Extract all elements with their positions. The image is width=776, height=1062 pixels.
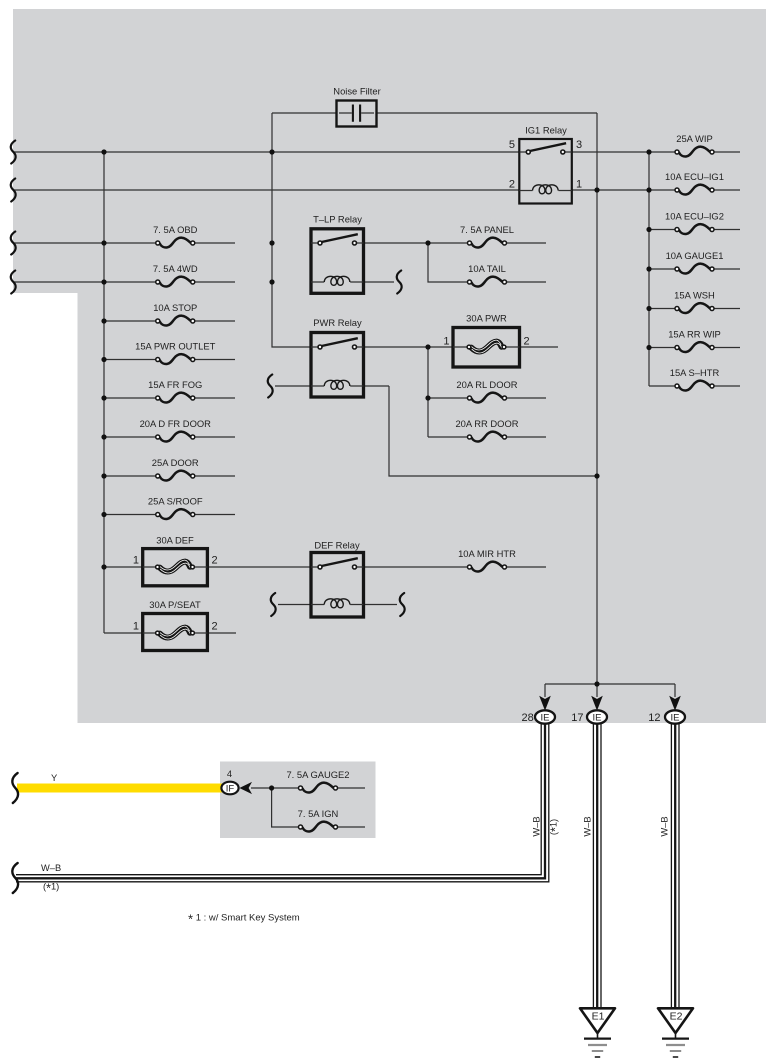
wire break PWR coil left [268,375,273,398]
arrow into IE pin 12 [669,696,681,711]
svg-text:2: 2 [212,621,218,633]
fuse 7. 5A PANEL [468,238,507,248]
svg-text:IF: IF [226,783,235,794]
relay T-LP Relay [311,229,364,293]
wire: PWR relay coil out [363,385,389,387]
junction PWR OUTLET row [101,357,106,362]
relay IG1 Relay [519,139,572,204]
svg-text:25A DOOR: 25A DOOR [152,457,199,468]
svg-text:4: 4 [227,768,232,779]
junction bus2/right bus [646,187,651,192]
wire: noise filter feed, left lead [272,112,337,114]
wire W-B from IE pin 28, down then left to break (triple line) [16,724,549,882]
junction IE header node [594,681,599,686]
fuse 15A WSH [675,303,714,313]
svg-text:W–B: W–B [531,816,542,836]
wire break DEF coil left [271,593,276,616]
svg-text:12: 12 [648,712,660,724]
junction DOOR row [101,473,106,478]
svg-text:10A MIR HTR: 10A MIR HTR [458,548,516,559]
arrow into IF pin 4 [239,782,252,794]
wire: DEF relay coil out to break [363,604,397,606]
connector IE pin 28 [535,710,555,723]
wire: 10A STOP fuse out [193,320,235,322]
relay PWR Relay [311,333,364,398]
svg-text:IE: IE [671,712,680,723]
junction D FR DOOR row [101,434,106,439]
junction bus1/noise filter bus [269,149,274,154]
fuse 25A S/ROOF [156,509,195,519]
svg-text:(*1): (*1) [43,882,59,896]
wire break yellow wire left [12,773,18,803]
wire: vertical bus x=272 down to PWR relay switch [272,113,311,347]
svg-text:17: 17 [571,712,583,724]
wire: break to PWR relay coil [275,385,311,387]
fuse 10A TAIL [468,277,507,287]
svg-text:DEF Relay: DEF Relay [314,540,360,551]
junction bus1/right bus [646,149,651,154]
fuse 7. 5A OBD [156,238,195,248]
fuse 10A ECU–IG1 [675,185,714,195]
wire: drop to IE pin 12 arrow [674,684,676,697]
wire: left vertical bus x=104 [103,152,105,633]
fuse 15A RR WIP [675,342,714,352]
arrow into IE pin 28 [539,696,551,711]
wire: bus to S-HTR fuse [649,385,677,387]
fusible link 30A PWR (box) [453,328,520,368]
svg-text:10A ECU–IG2: 10A ECU–IG2 [665,210,724,221]
fuse 7. 5A 4WD [156,277,195,287]
wire: 10A TAIL fuse out [505,281,547,283]
svg-text:E1: E1 [592,1011,605,1023]
junction 4WD row [101,279,106,284]
svg-text:10A ECU–IG1: 10A ECU–IG1 [665,171,724,182]
svg-text:3: 3 [576,139,582,151]
wire: 25A DOOR fuse out [193,475,235,477]
junction WSH row [646,306,651,311]
junction RR WIP row [646,345,651,350]
svg-text:5: 5 [509,139,515,151]
wire: node to 20A RL DOOR fuse [428,397,470,399]
fuse 10A ECU–IG2 [675,224,714,234]
svg-text:15A RR WIP: 15A RR WIP [668,328,721,339]
wire: top horizontal bus y=152 to IG1 relay pin5 [13,151,520,153]
junction DEF row [101,564,106,569]
svg-text:7. 5A IGN: 7. 5A IGN [298,808,339,819]
fusible link 30A DEF (box) [143,549,208,586]
wire: IF pin4 arrow to GAUGE2 node [251,787,301,789]
wire Y (yellow feed to IF connector) [17,784,222,793]
svg-text:20A RR DOOR: 20A RR DOOR [455,418,518,429]
fusible link 30A P/SEAT (box) [143,614,208,651]
wire: right vertical bus x=649 [648,152,650,386]
fuse 20A RL DOOR [468,393,507,403]
junction GAUGE2/IGN node [269,785,274,790]
svg-text:15A FR FOG: 15A FR FOG [148,379,202,390]
wire: bus to 30A DEF link box [104,566,143,568]
svg-text:30A DEF: 30A DEF [156,535,194,546]
junction GAUGE1 row [646,266,651,271]
wire: T-LP relay coil out to break [363,281,394,283]
wire: noise filter to right vertical [376,112,597,114]
instrument panel fuse block background (GAUGE2/IGN shaded panel) [220,762,376,839]
wire: bus corner to 30A P/SEAT link box [104,632,143,634]
svg-text:1: 1 [133,555,139,567]
wire: bus to 15A FR FOG fuse [104,397,158,399]
svg-text:W–B: W–B [41,863,61,873]
svg-text:1: 1 [133,621,139,633]
wire: 15A PWR OUTLET fuse out [193,359,235,361]
fuse 10A STOP [156,316,195,326]
wire: 20A D FR DOOR fuse out [193,436,235,438]
svg-text:* 1 : w/ Smart Key System: * 1 : w/ Smart Key System [188,912,300,927]
svg-text:20A RL DOOR: 20A RL DOOR [456,379,517,390]
junction PWR/doors node [425,344,430,349]
fuse 15A S–HTR [675,381,714,391]
wire break bus1 left [11,141,16,164]
wire: PWR relay switch out to 30A PWR link box [363,346,453,348]
fuse 10A GAUGE1 [675,264,714,274]
svg-text:28: 28 [522,712,534,724]
wire W-B from IE pin 17 down to ground E1 (triple line) [593,724,601,1009]
svg-text:25A WIP: 25A WIP [676,133,712,144]
wire: bus to WSH fuse [649,308,677,310]
fuse 25A DOOR [156,471,195,481]
junction bus1/left bus [101,149,106,154]
svg-text:PWR Relay: PWR Relay [313,317,362,328]
svg-text:10A TAIL: 10A TAIL [468,263,506,274]
svg-text:7. 5A GAUGE2: 7. 5A GAUGE2 [286,769,349,780]
wire: WSH fuse out [712,308,740,310]
fuse 7. 5A IGN [299,822,338,832]
junction T-LP coil row [269,279,274,284]
fuse 7. 5A GAUGE2 [299,783,338,793]
junction S/ROOF row [101,512,106,517]
wire: IG1 pin1 to 10A ECU-IG1 fuse [572,189,678,191]
wire: 25A WIP fuse out [712,151,740,153]
relay DEF Relay [311,553,364,618]
svg-text:Y: Y [51,772,58,783]
wire: bus to 7.5A 4WD fuse [13,281,158,283]
wire: DEF relay switch out to 10A MIR HTR fuse [363,566,470,568]
wire: T-LP relay switch out to 7.5A PANEL [363,242,470,244]
wire: RR WIP fuse out [712,347,740,349]
wire: bus to 7.5A OBD fuse [13,242,158,244]
wire: bus to 10A STOP fuse [104,320,158,322]
svg-text:20A D FR DOOR: 20A D FR DOOR [140,418,212,429]
wire: drop from 30A PWR node down to RR DOOR row [427,347,429,437]
wire: 10A ECU-IG1 fuse out [712,189,740,191]
fuse 15A FR FOG [156,393,195,403]
junction bus2/x597 vertical [594,187,599,192]
wire W-B from IE pin 12 down to ground E2 (triple line) [671,724,679,1009]
svg-text:30A P/SEAT: 30A P/SEAT [149,599,201,610]
wire: 25A S/ROOF fuse out [193,514,235,516]
junction FR FOG row [101,395,106,400]
wire: 7.5A PANEL fuse out [505,242,547,244]
junction PWR coil return node [594,473,599,478]
wire: 30A P/SEAT link out [207,632,236,634]
wire: 15A FR FOG fuse out [193,397,235,399]
svg-text:(*1): (*1) [548,819,563,835]
svg-text:T–LP Relay: T–LP Relay [313,214,362,225]
svg-text:IE: IE [541,712,550,723]
svg-text:15A WSH: 15A WSH [674,289,715,300]
wire: 20A RR DOOR fuse out [505,436,547,438]
junction STOP row [101,318,106,323]
svg-text:1: 1 [576,179,582,191]
ground E1 (triangle) [580,1008,615,1033]
junction RL DOOR node [425,395,430,400]
connector IF pin 4 [221,782,238,795]
noise filter (capacitor in box) [337,101,377,127]
wire: 10A MIR HTR fuse out [505,566,547,568]
wire: bus to 20A D FR DOOR fuse [104,436,158,438]
wire: bus to 15A PWR OUTLET fuse [104,359,158,361]
wire: 7.5A OBD fuse out [193,242,235,244]
wire: bus to ECU-IG2 fuse [649,229,677,231]
wire: 30A DEF link to DEF relay switch [207,566,311,568]
svg-text:2: 2 [524,336,530,348]
svg-text:2: 2 [212,555,218,567]
svg-text:W–B: W–B [582,816,593,836]
wire: GAUGE1 fuse out [712,268,740,270]
wire: drop to IE pin 17 arrow [596,684,598,697]
junction PANEL/TAIL node [425,240,430,245]
fuse 20A D FR DOOR [156,432,195,442]
svg-text:15A S–HTR: 15A S–HTR [670,367,720,378]
ground E2 (triangle) [658,1008,693,1033]
svg-text:7. 5A OBD: 7. 5A OBD [153,224,198,235]
wire: PWR coil return down and right to x=597 vertical [389,386,597,476]
arrow into IE pin 17 [591,696,603,711]
wire: IE connector header rail y=684 [545,683,675,685]
svg-text:W–B: W–B [659,816,670,836]
wire break W-B wire left [12,863,18,893]
wire: 7.5A GAUGE2 fuse out [336,787,366,789]
wire: 7.5A IGN fuse out [336,826,366,828]
connector IE pin 12 [665,710,685,723]
wire break DEF coil right [400,593,405,616]
wire break OBD row left [11,232,16,255]
svg-text:30A PWR: 30A PWR [466,313,507,324]
ground E1 (earth bars) [584,1033,611,1057]
junction OBD row [101,240,106,245]
wire break T-LP coil right [397,271,402,294]
svg-text:10A GAUGE1: 10A GAUGE1 [666,250,724,261]
svg-text:1: 1 [443,336,449,348]
fuse 15A PWR OUTLET [156,354,195,364]
svg-text:Noise Filter: Noise Filter [333,86,380,97]
wire break bus2 left [11,179,16,202]
wire: drop from PANEL node to 10A TAIL row [428,243,470,282]
svg-text:IE: IE [593,712,602,723]
junction T-LP switch row [269,240,274,245]
wire: bus to GAUGE1 fuse [649,268,677,270]
fuse 20A RR DOOR [468,432,507,442]
wire: second horizontal bus y=190 to IG1 relay pin2 [13,189,520,191]
wire: long vertical x=597 from noise filter to IE junction [596,113,598,684]
wire: bus to RR WIP fuse [649,347,677,349]
wire: IG1 pin3 to 25A WIP fuse [572,151,678,153]
wire: break to DEF relay coil [278,604,311,606]
fuse 25A WIP [675,147,714,157]
wire: 20A RL DOOR fuse out [505,397,547,399]
fusible link 30A P/SEAT (element) [156,626,195,639]
svg-text:15A PWR OUTLET: 15A PWR OUTLET [135,340,216,351]
svg-text:E2: E2 [670,1011,683,1023]
svg-text:7. 5A 4WD: 7. 5A 4WD [153,263,198,274]
wire break 4WD row left [11,271,16,294]
wire: S-HTR fuse out [712,385,740,387]
wire: bus to 25A DOOR fuse [104,475,158,477]
wire: corner to 20A RR DOOR fuse [428,436,470,438]
wire: branch down to 7.5A IGN row [272,788,301,827]
wire: 7.5A 4WD fuse out [193,281,235,283]
fusible link 30A DEF (element) [156,560,195,573]
wire: 30A PWR link out [520,346,559,348]
svg-text:IG1 Relay: IG1 Relay [525,125,567,136]
engine-room junction/fuse block background (shaded area) [13,9,766,723]
wire: bus to 25A S/ROOF fuse [104,514,158,516]
wire: ECU-IG2 fuse out [712,229,740,231]
connector IE pin 17 [587,710,607,723]
fusible link 30A PWR (element) [467,340,506,353]
svg-text:7. 5A PANEL: 7. 5A PANEL [460,224,514,235]
fuse 10A MIR HTR [468,562,507,572]
ground E2 (earth bars) [662,1033,689,1057]
svg-text:25A S/ROOF: 25A S/ROOF [148,495,203,506]
junction ECU-IG2 row [646,227,651,232]
svg-text:2: 2 [509,179,515,191]
wire: drop to IE pin 28 arrow [544,684,546,697]
svg-text:10A STOP: 10A STOP [153,302,197,313]
